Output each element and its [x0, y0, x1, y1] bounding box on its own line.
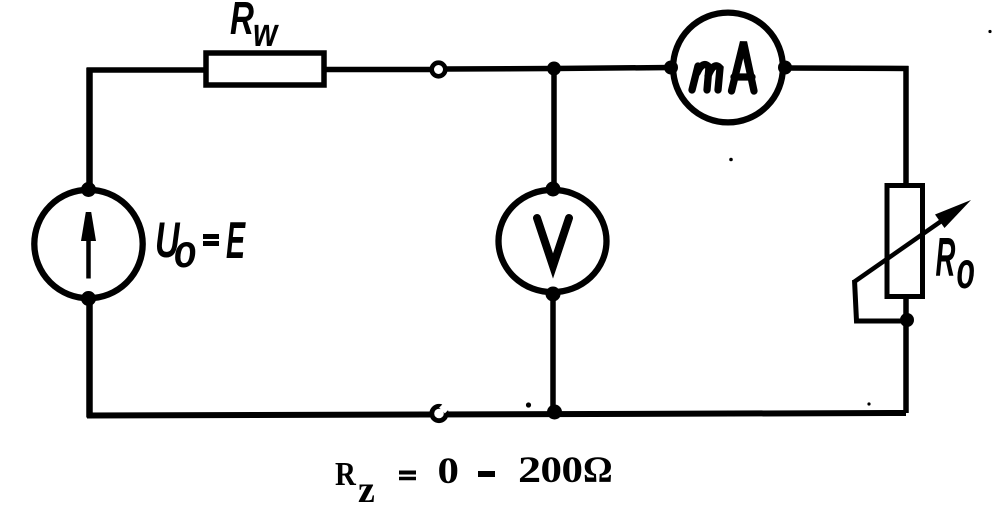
wire right vertical upper — [903, 66, 909, 184]
wire right vertical lower — [903, 299, 909, 413]
wire ammeter to right corner — [785, 65, 909, 71]
source bottom junction dot — [81, 291, 96, 306]
svg-text:w: w — [253, 10, 279, 55]
speckle dot 4 — [867, 402, 870, 405]
terminal top (open circle) — [432, 63, 446, 77]
svg-text:R: R — [230, 0, 254, 44]
voltmeter top dot — [546, 182, 561, 197]
wire voltmeter top branch — [551, 69, 557, 189]
caption Rz = 0 - 200 ohm — [335, 455, 357, 493]
svg-text:R: R — [335, 455, 357, 493]
terminal bottom (open c-circle) — [432, 406, 446, 420]
svg-text:E: E — [226, 211, 246, 269]
ammeter mA circle — [673, 13, 783, 123]
svg-text:0: 0 — [562, 449, 583, 491]
rheostat R0 body — [887, 186, 923, 297]
source top junction dot — [81, 182, 96, 197]
label mA : letter m — [692, 65, 720, 90]
label U0 = E — [155, 213, 180, 269]
wire top-left horizontal (source to resistor) — [87, 67, 204, 73]
source arrow head — [81, 212, 96, 241]
speckle dot 2 — [729, 158, 733, 162]
source U0 circle — [34, 190, 142, 298]
junction node (voltmeter to bottom wire) — [547, 405, 562, 420]
svg-text:o: o — [957, 243, 975, 300]
svg-text:0: 0 — [438, 450, 459, 492]
wire resistor to top terminal — [324, 67, 432, 73]
wire left vertical upper — [86, 68, 93, 191]
svg-text:2: 2 — [518, 450, 541, 491]
svg-text:0: 0 — [541, 449, 562, 491]
wire terminal to junction — [445, 66, 554, 72]
speckle dot 3 — [526, 402, 531, 407]
wire junction to ammeter — [554, 68, 672, 69]
svg-text:o: o — [174, 225, 196, 277]
wire bottom horizontal — [87, 413, 906, 416]
speckle dot 1 — [988, 30, 991, 33]
label V glyph — [537, 218, 569, 266]
source arrow shaft — [86, 238, 91, 279]
rheostat arrow shaft — [854, 215, 950, 282]
label RW — [230, 0, 254, 44]
wire left vertical lower — [86, 298, 93, 418]
voltmeter V circle — [499, 190, 607, 292]
label mA : letter A — [732, 42, 755, 91]
label R0 — [936, 228, 956, 289]
wire voltmeter bottom branch — [550, 295, 556, 413]
svg-text:Ω: Ω — [583, 450, 613, 491]
svg-text:R: R — [936, 228, 956, 289]
voltmeter bottom dot — [546, 287, 561, 302]
ammeter left pin dot — [664, 61, 678, 75]
rheostat wiper hook wire — [855, 280, 909, 321]
svg-text:z: z — [358, 469, 375, 511]
junction node (top of voltmeter branch) — [547, 62, 561, 76]
ammeter right pin dot — [778, 61, 792, 75]
rheostat arrow head — [935, 200, 971, 228]
junction node (wiper to lower wire) — [900, 313, 914, 327]
resistor RW — [206, 53, 324, 85]
